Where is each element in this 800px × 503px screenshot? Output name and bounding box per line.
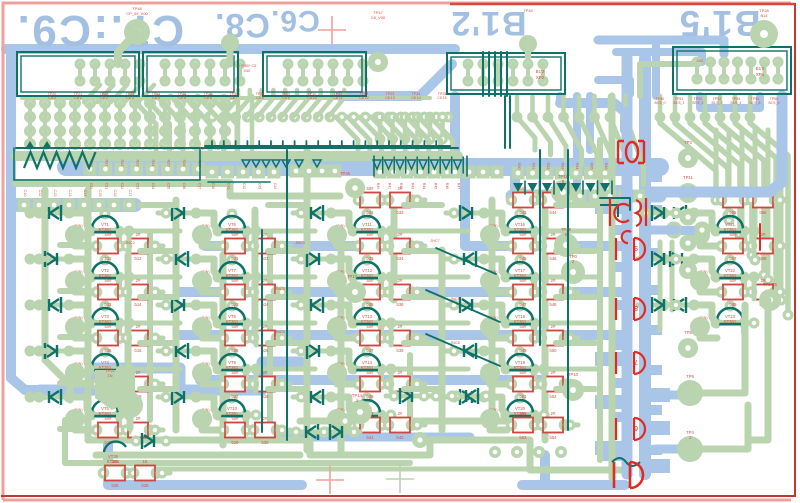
test point TP4 — [677, 436, 703, 462]
transistor VT17 — [488, 255, 544, 283]
svg-text:b36: b36 — [397, 302, 405, 307]
svg-text:R22: R22 — [120, 160, 124, 167]
wire blue row horizontal JNC5 — [180, 330, 625, 340]
wire cell links — [337, 281, 354, 292]
pad big — [480, 317, 500, 337]
svg-text:b25: b25 — [112, 483, 120, 488]
svg-text:b33: b33 — [367, 256, 375, 261]
resistor b57 — [716, 232, 751, 261]
svg-text:B1'5: B1'5 — [678, 3, 761, 44]
svg-text:C35: C35 — [167, 183, 171, 190]
svg-text:50#: 50# — [105, 278, 113, 283]
smd pads band row1 — [84, 163, 97, 176]
diag traces mid — [222, 90, 238, 117]
wire cell links — [75, 327, 92, 338]
diode VD — [293, 251, 337, 267]
svg-text:C8 2: C8 2 — [100, 96, 108, 100]
svg-text:C40: C40 — [211, 183, 215, 190]
resistor b14 — [121, 278, 156, 307]
resistor b21 — [218, 232, 253, 261]
resistor b32 — [383, 186, 418, 215]
svg-text:b29: b29 — [232, 440, 240, 445]
svg-text:50#: 50# — [232, 278, 240, 283]
pad C8 — [221, 34, 239, 52]
svg-text:C30: C30 — [89, 183, 93, 190]
svg-text:B14: B14 — [760, 13, 768, 18]
wire cell links — [490, 419, 507, 430]
diode VD — [128, 433, 172, 449]
wire blue band downlink — [510, 170, 520, 196]
svg-text:b41: b41 — [367, 435, 375, 440]
wire green bottom bus C — [96, 452, 300, 459]
svg-text:B1'2: B1'2 — [536, 69, 545, 74]
svg-text:2#: 2# — [551, 370, 556, 375]
diode VD — [31, 251, 75, 267]
svg-text:C8 13: C8 13 — [385, 96, 395, 100]
resistor b53 — [506, 411, 541, 440]
wire rrow stub — [413, 423, 425, 428]
resistor b18 — [121, 370, 156, 399]
svg-text:C8_V00: C8_V00 — [371, 15, 386, 20]
connector XS3 outline — [263, 52, 366, 96]
svg-text:50#: 50# — [105, 416, 113, 421]
svg-text:8: 8 — [634, 304, 638, 311]
wire cell links — [75, 373, 92, 384]
svg-text:b15: b15 — [105, 348, 113, 353]
resistor b13 — [91, 278, 126, 307]
svg-text:04X: 04X — [244, 69, 251, 73]
svg-text:TP17: TP17 — [347, 274, 358, 279]
wire blue right bus B over — [639, 225, 651, 474]
svg-text:C12: C12 — [53, 190, 57, 197]
red label D2 — [616, 238, 645, 260]
wire green rect-bottom bus — [22, 96, 430, 100]
wire green trunk col2 C — [252, 210, 259, 330]
wire blue stub rows left of bus — [595, 200, 623, 214]
svg-text:2#: 2# — [551, 278, 556, 283]
resistor b34 — [383, 232, 418, 261]
diode VD — [158, 343, 202, 359]
svg-text:b21: b21 — [232, 256, 240, 261]
diode VD — [446, 297, 490, 313]
wire blue right connector weave — [700, 96, 760, 108]
resistor b48 — [536, 278, 571, 307]
pad big bottom-left — [95, 370, 135, 410]
wire teal vertical 3 — [539, 150, 541, 345]
svg-text:T8: T8 — [170, 147, 174, 151]
svg-text:2#: 2# — [398, 278, 403, 283]
wire green trunk col4 C — [542, 210, 549, 440]
svg-text:b11: b11 — [105, 256, 112, 261]
wire cell links — [490, 373, 507, 384]
wire teal vertical 1 — [261, 230, 263, 432]
pad B15 — [750, 20, 778, 48]
svg-text:b57: b57 — [730, 256, 738, 261]
diode VD — [293, 205, 337, 221]
transistor VT9 — [200, 347, 256, 375]
wire blue band row1 — [66, 158, 660, 176]
svg-text:b59: b59 — [730, 302, 738, 307]
svg-text:2#: 2# — [398, 370, 403, 375]
svg-text:2#: 2# — [136, 278, 141, 283]
svg-text:C11: C11 — [38, 190, 42, 197]
wire rrow stub — [278, 290, 290, 295]
svg-text:b51: b51 — [520, 394, 528, 399]
diode VD — [31, 205, 75, 221]
svg-text:C44: C44 — [273, 183, 277, 190]
svg-text:R34: R34 — [575, 163, 579, 170]
svg-text:B1'5_1: B1'5_1 — [673, 101, 684, 105]
svg-text:R23: R23 — [136, 160, 140, 167]
svg-text:50#: 50# — [730, 278, 738, 283]
wire blue power bus top — [6, 44, 455, 54]
svg-text:R47: R47 — [457, 183, 461, 189]
resistor b49 — [506, 324, 541, 353]
svg-text:b37: b37 — [367, 348, 375, 353]
svg-text:b23: b23 — [232, 302, 240, 307]
svg-text:T7: T7 — [155, 147, 159, 151]
svg-text:R33: R33 — [561, 163, 565, 170]
svg-text:50#: 50# — [232, 416, 240, 421]
svg-text:b16: b16 — [135, 348, 143, 353]
svg-text:50#: 50# — [367, 370, 375, 375]
pad big — [480, 363, 500, 383]
svg-text:2#: 2# — [263, 232, 268, 237]
wire rrow stub — [151, 244, 163, 249]
svg-text:XP2: XP2 — [536, 75, 545, 80]
red tick right — [759, 224, 761, 250]
svg-text:b34: b34 — [397, 256, 405, 261]
connector XS1 outline — [17, 52, 139, 96]
wire green bottom bus B — [300, 418, 545, 425]
diode VD — [288, 424, 332, 440]
test point TP8 — [759, 289, 781, 311]
svg-text:B1'5_4: B1'5_4 — [730, 101, 741, 105]
resistor b38 — [383, 324, 418, 353]
resistor b54 — [536, 411, 571, 440]
resistor b12 — [121, 232, 156, 261]
wire teal bus verticals top — [482, 52, 484, 96]
wire cell links — [490, 327, 507, 338]
svg-text:R40: R40 — [376, 183, 380, 189]
wire blue bottom riser — [540, 455, 550, 485]
wire rrow stub — [566, 290, 578, 295]
red label 3C3 — [610, 198, 646, 243]
svg-text:JNC2: JNC2 — [125, 241, 135, 245]
resistor b22 — [248, 232, 283, 261]
diode array triangles left — [25, 141, 35, 149]
transistor VT15 — [335, 393, 391, 421]
test point TP45 — [345, 178, 365, 198]
wire green maze — [60, 242, 88, 248]
resistor b36 — [383, 278, 418, 307]
wire rrow stub — [776, 198, 788, 203]
wire blue bus tabs — [612, 160, 624, 170]
wire green bottom staircase — [170, 440, 620, 470]
svg-text:C8 0: C8 0 — [48, 96, 56, 100]
test point TP11 — [678, 183, 698, 203]
wire rrow stub — [278, 428, 290, 433]
wire rrow stub — [278, 336, 290, 341]
svg-text:TP3: TP3 — [684, 140, 692, 145]
svg-text:9: 9 — [634, 244, 638, 251]
transistor VT13 — [335, 301, 391, 329]
pad big — [65, 317, 85, 337]
diode VD — [446, 343, 490, 359]
wire rrow stub — [566, 198, 578, 203]
svg-text:b56: b56 — [760, 210, 768, 215]
transistor VT12 — [335, 255, 391, 283]
svg-text:b35: b35 — [367, 302, 375, 307]
wire green maze verticals — [127, 231, 132, 253]
svg-text:C8 5: C8 5 — [178, 96, 186, 100]
test point TP17 — [344, 281, 366, 303]
svg-text:C14: C14 — [83, 190, 87, 197]
svg-text:2#: 2# — [263, 324, 268, 329]
wire green trunk col3 B — [338, 230, 345, 452]
pad B12 — [519, 35, 537, 53]
svg-text:T1: T1 — [65, 147, 69, 151]
resistor b40 — [383, 370, 418, 399]
wire blue clover stub — [645, 226, 676, 235]
wire rrow stub — [413, 336, 425, 341]
svg-text:TP9: TP9 — [686, 374, 694, 379]
diode VD — [638, 297, 682, 313]
svg-text:XP1: XP1 — [756, 72, 765, 77]
wire blue row horizontal JNC3 — [180, 287, 625, 297]
wire blue TP feeds right — [655, 391, 686, 400]
svg-text:2#: 2# — [263, 370, 268, 375]
svg-text:T4: T4 — [110, 147, 114, 151]
pad big — [480, 225, 500, 245]
transistor VT3 — [73, 301, 129, 329]
svg-text:T6: T6 — [140, 147, 144, 151]
diode VD — [293, 389, 337, 405]
resistor b16 — [121, 324, 156, 353]
diode VD — [448, 388, 492, 404]
pad big — [480, 271, 500, 291]
test point pad right — [679, 261, 697, 279]
resistor b24 — [248, 278, 283, 307]
svg-text:JNC9: JNC9 — [450, 297, 460, 301]
resistor b41 — [353, 411, 388, 440]
resistor b29 — [218, 416, 253, 445]
svg-text:b54: b54 — [550, 435, 558, 440]
wire blue row horizontal JNC6 — [200, 375, 545, 385]
svg-text:C10: C10 — [23, 190, 27, 197]
diode VD — [386, 388, 430, 404]
diag traces top left — [130, 96, 156, 150]
pad big — [480, 409, 500, 429]
svg-text:C43: C43 — [258, 183, 262, 190]
diode VD — [656, 251, 700, 267]
wire green main bus band — [16, 151, 458, 161]
wire rrow stub — [413, 198, 425, 203]
wire blue far-right L over — [650, 96, 782, 192]
wire blue top-right left stub — [598, 80, 630, 94]
resistor b25 — [98, 459, 133, 488]
svg-text:C8 15: C8 15 — [437, 96, 447, 100]
resistor b45 — [506, 232, 541, 261]
drops mid — [222, 96, 227, 150]
resistor b26 — [248, 324, 283, 353]
wire green trunk col4 A — [439, 250, 446, 430]
wire rrow stub — [151, 290, 163, 295]
wire green xp1 U — [640, 64, 692, 96]
svg-text:b44: b44 — [550, 210, 558, 215]
green verticals below clover — [658, 242, 663, 330]
transistor VT1 — [73, 209, 129, 237]
wire blue right bus A — [622, 58, 633, 474]
wire cell links — [337, 327, 354, 338]
wire rrow stub — [776, 244, 788, 249]
transistor VT21 — [698, 209, 754, 237]
svg-text:6: 6 — [634, 424, 638, 431]
pad big — [690, 225, 710, 245]
green fan right verticals — [660, 117, 716, 195]
wire green trunk col1 C — [125, 255, 132, 372]
svg-text:R31: R31 — [532, 163, 536, 170]
diode VD — [158, 251, 202, 267]
svg-text:JNC4: JNC4 — [295, 241, 305, 245]
svg-text:b38: b38 — [397, 348, 405, 353]
wire blue right top feed — [560, 103, 625, 130]
wire cell links — [490, 235, 507, 246]
connector pads top row — [75, 59, 86, 70]
teal bracket bottom right — [612, 458, 640, 466]
svg-text:R25: R25 — [167, 160, 171, 167]
svg-text:b45: b45 — [520, 256, 528, 261]
pad big — [327, 409, 347, 429]
diode VD — [316, 424, 360, 440]
diode VD — [31, 297, 75, 313]
wire green trunk left A — [45, 190, 70, 400]
transistor VT22 — [698, 255, 754, 283]
svg-text:50#: 50# — [367, 278, 375, 283]
svg-text:b48: b48 — [550, 302, 558, 307]
svg-text:C8 12: C8 12 — [359, 96, 369, 100]
svg-text:50#: 50# — [232, 324, 240, 329]
svg-text:C15: C15 — [98, 190, 102, 197]
resistor b17 — [91, 370, 126, 399]
svg-text:b43: b43 — [520, 210, 528, 215]
svg-text:C41: C41 — [227, 183, 231, 190]
svg-text:JNC7: JNC7 — [430, 239, 440, 243]
pad big — [192, 409, 212, 429]
wire green gap trunks — [147, 232, 153, 420]
crosshair bottom — [316, 466, 344, 494]
green fan straight verticals — [714, 130, 719, 200]
svg-text:TP45: TP45 — [340, 171, 351, 176]
svg-text:T2: T2 — [80, 147, 84, 151]
svg-text:C34: C34 — [151, 183, 155, 190]
svg-text:b13: b13 — [105, 302, 113, 307]
resistor b15 — [91, 324, 126, 353]
pad big — [65, 225, 85, 245]
wire blue top-right loop inner — [616, 52, 702, 62]
resistor b28 — [248, 370, 283, 399]
svg-text:C17: C17 — [128, 190, 132, 197]
svg-text:50#: 50# — [105, 324, 113, 329]
connector XS2 outline — [143, 52, 238, 96]
wire green band mid link — [230, 183, 340, 196]
pad big — [690, 317, 710, 337]
pad big — [327, 363, 347, 383]
transistor VT14 — [335, 347, 391, 375]
svg-text:R26: R26 — [182, 160, 186, 167]
svg-text:C32: C32 — [120, 183, 124, 190]
resistor b58 — [746, 232, 781, 261]
resistor b55 — [716, 186, 751, 215]
resistor b52 — [536, 370, 571, 399]
pad big — [65, 271, 85, 291]
pad big — [192, 317, 212, 337]
resistor b37 — [353, 324, 388, 353]
wire green bottom bus A — [88, 437, 170, 444]
svg-text:T3: T3 — [95, 147, 99, 151]
wire teal diagonal top — [436, 248, 496, 274]
svg-text:C7.:C9.: C7.:C9. — [15, 6, 184, 55]
diag traces left down — [84, 85, 100, 102]
pad big — [327, 271, 347, 291]
svg-text:B1'5_0: B1'5_0 — [654, 101, 665, 105]
diode VD — [158, 297, 202, 313]
wire blue xp2 drops — [573, 96, 581, 192]
wire cell links — [202, 281, 219, 292]
resistor b26 — [128, 459, 163, 488]
wire blue left edge vertical — [11, 49, 40, 390]
svg-text:C8 1: C8 1 — [74, 96, 82, 100]
svg-text:b12: b12 — [135, 256, 143, 261]
wire rrow stub — [413, 382, 425, 387]
resistor b20 — [121, 416, 156, 445]
wire blue top right diag — [340, 64, 452, 96]
test point TP19 — [551, 180, 575, 204]
wire green trunk col2 B — [220, 255, 227, 445]
resistor b47 — [506, 278, 541, 307]
wire cell links — [202, 419, 219, 430]
transistor VT18 — [488, 301, 544, 329]
wire rrow stub — [566, 244, 578, 249]
svg-text:50#: 50# — [730, 232, 738, 237]
transistor VT4 — [73, 347, 129, 375]
svg-text:B1'5_3: B1'5_3 — [711, 101, 722, 105]
pad big — [690, 271, 710, 291]
wire cell links — [337, 373, 354, 384]
svg-text:JNC5: JNC5 — [275, 330, 285, 334]
transistor VT16 — [488, 209, 544, 237]
svg-text:b50: b50 — [550, 348, 558, 353]
pad big — [192, 271, 212, 291]
svg-text:b14: b14 — [135, 302, 143, 307]
wire blue mid horizontal JNC4 — [205, 241, 420, 251]
svg-text:R24: R24 — [151, 160, 155, 167]
diode array marks right — [373, 160, 381, 169]
connector pads right — [692, 57, 703, 68]
svg-text:50#: 50# — [520, 232, 528, 237]
pad TP48 — [124, 19, 150, 45]
svg-text:C8 3: C8 3 — [126, 96, 134, 100]
svg-text:C8 6: C8 6 — [204, 96, 212, 100]
svg-text:2#: 2# — [136, 370, 141, 375]
resistor b43 — [506, 186, 541, 215]
pad bottom mid — [337, 413, 353, 429]
transistor VT11 — [335, 209, 391, 237]
resistor b60 — [746, 278, 781, 307]
svg-text:C42: C42 — [242, 183, 246, 190]
svg-text:B1'5_6: B1'5_6 — [768, 101, 779, 105]
svg-text:C8 4: C8 4 — [152, 96, 160, 100]
